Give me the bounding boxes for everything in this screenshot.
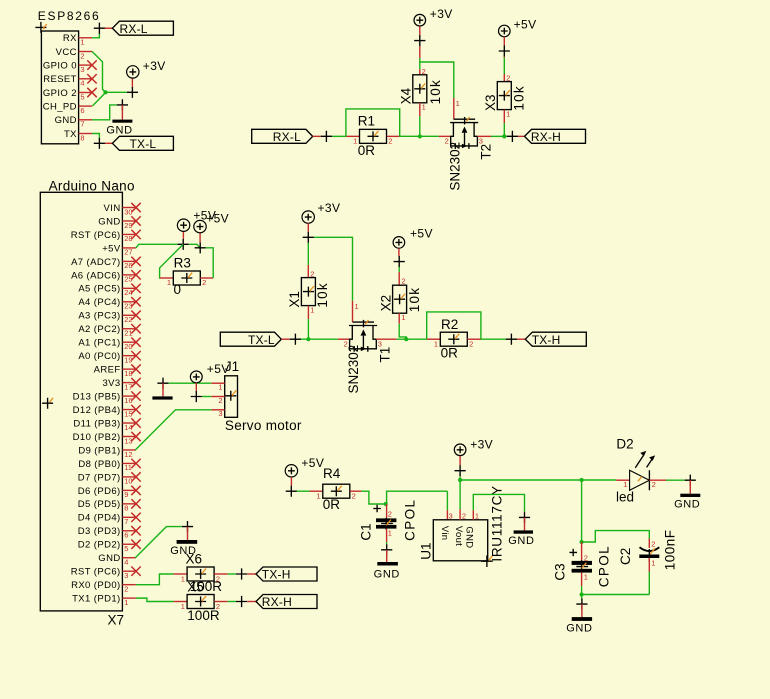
svg-text:1: 1	[623, 480, 627, 489]
svg-text:Servo motor: Servo motor	[225, 418, 302, 433]
node cross +5V X2	[394, 256, 405, 267]
svg-text:2: 2	[584, 554, 588, 563]
svg-text:D9 (PB1): D9 (PB1)	[78, 445, 120, 456]
svg-text:1: 1	[434, 339, 438, 348]
junction +3V rail	[458, 478, 462, 482]
svg-text:RX-H: RX-H	[262, 595, 292, 609]
J1 pin 2	[211, 396, 225, 398]
supply +5V (X2)	[393, 237, 405, 249]
svg-text:GND: GND	[566, 623, 592, 635]
node cross +5V b	[195, 242, 206, 253]
node cross TX-H attach	[506, 334, 517, 345]
svg-text:TX: TX	[64, 129, 77, 140]
flag TX-L (shifter input)	[220, 332, 281, 346]
svg-text:0R: 0R	[441, 346, 459, 361]
svg-text:3: 3	[218, 409, 222, 418]
svg-text:AREF: AREF	[94, 365, 121, 376]
regulator U1 body	[433, 520, 487, 561]
svg-text:6: 6	[80, 106, 84, 115]
svg-text:RX-L: RX-L	[273, 130, 301, 144]
resistor X4 10k	[413, 75, 427, 103]
ground GND (ESP)	[121, 105, 123, 120]
svg-text:R4: R4	[323, 466, 341, 481]
transistor T2 SN2302	[439, 135, 450, 137]
wire X1 to row	[307, 306, 309, 320]
svg-text:D11 (PB3): D11 (PB3)	[73, 418, 120, 429]
wire +5V b to R3 pin2	[206, 248, 213, 278]
svg-text:D6 (PD6): D6 (PD6)	[78, 486, 121, 497]
capacitor C1 CPOL plus sign	[373, 505, 381, 512]
svg-text:D8 (PB0): D8 (PB0)	[78, 459, 120, 470]
svg-text:Vout: Vout	[453, 526, 464, 546]
node cross ground U1	[519, 512, 530, 523]
svg-text:8: 8	[80, 133, 84, 142]
svg-text:RX0 (PD0): RX0 (PD0)	[71, 580, 121, 591]
svg-text:1: 1	[355, 302, 359, 311]
svg-text:X4: X4	[399, 87, 414, 104]
svg-text:VIN: VIN	[104, 203, 121, 214]
svg-text:SN2302: SN2302	[346, 345, 361, 394]
svg-text:GND: GND	[98, 216, 120, 227]
svg-text:9: 9	[124, 490, 128, 499]
svg-text:GPIO 2: GPIO 2	[43, 88, 77, 99]
wire +3V to X1	[307, 243, 309, 265]
wire +3V to X4	[419, 46, 421, 58]
svg-text:0R: 0R	[323, 497, 341, 512]
svg-text:2: 2	[388, 509, 392, 518]
wire Arduino GND pin to ground	[135, 527, 182, 558]
wire +3V branch to T1 gate	[314, 237, 353, 301]
wire Arduino D9 to J1 pin3 (servo signal)	[135, 410, 211, 450]
svg-text:+3V: +3V	[430, 7, 453, 21]
svg-text:IRU1117CY: IRU1117CY	[489, 485, 504, 561]
resistor X3 10k	[497, 82, 511, 110]
svg-text:Arduino Nano: Arduino Nano	[49, 178, 135, 193]
svg-text:TX-L: TX-L	[130, 137, 157, 151]
svg-text:2: 2	[352, 491, 356, 500]
wire RX-L to R1	[332, 135, 346, 137]
svg-text:+5V: +5V	[102, 243, 121, 254]
svg-text:X1: X1	[287, 291, 302, 308]
flag TX-L (ESP)	[112, 136, 173, 150]
svg-text:TX-L: TX-L	[248, 333, 275, 347]
svg-text:2: 2	[652, 480, 656, 489]
svg-text:D2: D2	[616, 436, 633, 451]
junction X3 bottom	[502, 134, 506, 138]
svg-text:T1: T1	[378, 347, 393, 363]
resistor X6 100R	[174, 573, 188, 575]
junction C2 return	[580, 592, 584, 596]
J1 pin 1	[211, 382, 225, 384]
svg-text:U1: U1	[419, 543, 434, 560]
svg-text:100nF: 100nF	[662, 530, 677, 571]
supply +5V (X3)	[499, 25, 511, 37]
node cross ground D2	[685, 475, 696, 486]
wire Arduino TX1 to X5	[136, 598, 174, 601]
svg-text:R3: R3	[174, 256, 191, 271]
node cross +5V J1	[191, 391, 202, 402]
svg-text:2: 2	[310, 270, 314, 279]
svg-text:1: 1	[124, 598, 128, 607]
node cross ground C3	[576, 599, 587, 610]
wire +3V to U1 Vout	[459, 476, 461, 509]
svg-text:2: 2	[462, 512, 466, 521]
wire X4 to row	[419, 103, 421, 117]
ground (Arduino GND)	[187, 527, 189, 540]
wire T2 to X3/RX-H	[491, 135, 507, 137]
node cross GND (ESP)	[117, 99, 128, 110]
svg-text:D10 (PB2): D10 (PB2)	[73, 432, 121, 443]
svg-text:27: 27	[124, 248, 132, 257]
node cross RX-H attach	[507, 131, 518, 142]
svg-text:GND: GND	[374, 568, 400, 580]
svg-text:+3V: +3V	[143, 59, 166, 73]
wire U1 GND pin to ground	[472, 510, 474, 520]
junction VCC/CH_PD/+3V	[103, 90, 107, 94]
svg-text:2: 2	[80, 51, 84, 60]
wire X2 to row	[398, 313, 400, 324]
svg-text:8: 8	[124, 504, 128, 513]
svg-text:+5V: +5V	[514, 18, 537, 32]
supply +3V (X1)	[302, 211, 314, 223]
svg-text:X3: X3	[483, 94, 498, 111]
wire Arduino RX0 to X6	[136, 574, 174, 585]
wire ESP TX to TX-L	[92, 134, 99, 138]
resistor X1 10k	[301, 278, 315, 306]
wire link to C2	[582, 531, 650, 542]
svg-text:D2 (PD2): D2 (PD2)	[78, 540, 121, 551]
wire ESP RX to RX-L	[92, 33, 99, 38]
ground (U1)	[524, 517, 526, 530]
svg-text:CH_PD: CH_PD	[43, 102, 77, 113]
svg-text:RST (PC6): RST (PC6)	[71, 567, 121, 578]
svg-text:X6: X6	[186, 551, 203, 566]
svg-text:1: 1	[310, 305, 314, 314]
svg-text:RX: RX	[63, 33, 77, 44]
svg-text:+5V: +5V	[207, 362, 230, 376]
wire C2 bottom return	[582, 594, 650, 596]
node cross +5V a	[178, 239, 189, 250]
node cross +3V (X4)	[414, 35, 425, 46]
wire R1 to X4/T2	[400, 135, 439, 137]
wire bypass around R2	[427, 312, 481, 339]
resistor R2 0R	[427, 338, 441, 340]
svg-text:TX-H: TX-H	[532, 333, 561, 347]
svg-text:1: 1	[475, 512, 479, 521]
junction C3 branch	[580, 478, 584, 482]
svg-text:5: 5	[80, 92, 84, 101]
flag TX-H (to Arduino)	[256, 567, 317, 581]
wire link to second supply	[189, 244, 200, 248]
svg-text:SN2302: SN2302	[447, 142, 462, 191]
svg-text:CPOL: CPOL	[402, 499, 417, 541]
U1 origin cross	[481, 555, 493, 567]
ground (D2)	[689, 480, 691, 494]
supply +5V a	[182, 231, 184, 238]
svg-text:1: 1	[388, 529, 392, 538]
wire Arduino +5V to supply node	[136, 244, 178, 248]
svg-text:2: 2	[506, 74, 510, 83]
svg-text:7: 7	[124, 517, 128, 526]
svg-text:+3V: +3V	[318, 201, 341, 215]
svg-text:1: 1	[353, 136, 357, 145]
svg-text:A6 (ADC6): A6 (ADC6)	[71, 270, 121, 281]
svg-text:C1: C1	[358, 523, 373, 540]
junction X1 bottom	[306, 337, 310, 341]
capacitor C2 100nF	[648, 539, 650, 549]
resistor X2 10k	[393, 285, 407, 313]
ESP8266 origin cross	[35, 22, 46, 33]
svg-text:1: 1	[456, 99, 460, 108]
svg-text:4: 4	[80, 79, 84, 88]
IC Arduino Nano body	[40, 192, 122, 611]
wire rail down to C3/C2	[581, 480, 583, 542]
svg-text:4: 4	[124, 558, 128, 567]
svg-text:GND: GND	[55, 115, 77, 126]
resistor R4 0R	[309, 490, 322, 492]
wire C1 to ground	[386, 529, 388, 542]
node cross ground (Arduino GND)	[182, 521, 193, 532]
svg-text:0: 0	[174, 282, 182, 297]
wire X5 to RX-H	[228, 601, 237, 603]
wire R2 to TX-H	[481, 338, 506, 340]
wire R4 to C1/U1 rail	[361, 491, 385, 504]
capacitor C3 CPOL plus sign	[570, 549, 578, 556]
ground (C3)	[581, 604, 583, 617]
svg-text:ESP8266: ESP8266	[38, 9, 101, 23]
IC ESP8266 body	[41, 31, 78, 144]
svg-text:1: 1	[401, 313, 405, 322]
svg-text:100R: 100R	[187, 608, 220, 623]
J1 pin 3	[211, 409, 225, 411]
svg-text:C3: C3	[553, 563, 568, 580]
wire X6 to TX-H	[228, 573, 237, 575]
LED D2 arrows	[635, 456, 643, 468]
svg-text:10k: 10k	[407, 287, 422, 312]
svg-text:D3 (PD3): D3 (PD3)	[78, 526, 121, 537]
node cross RX-H bottom	[236, 596, 247, 607]
svg-text:1: 1	[80, 38, 84, 47]
supply +5V b	[199, 233, 201, 242]
svg-text:1: 1	[181, 575, 185, 584]
supply +3V (U1)	[454, 444, 466, 456]
svg-text:A4 (PC4): A4 (PC4)	[78, 297, 120, 308]
svg-text:10k: 10k	[511, 85, 526, 110]
svg-text:GND: GND	[508, 535, 534, 547]
svg-text:10k: 10k	[315, 282, 330, 307]
svg-text:1: 1	[506, 109, 510, 118]
ground (C1)	[386, 550, 388, 562]
svg-text:2: 2	[401, 277, 405, 286]
node cross RX-L attach	[94, 23, 105, 34]
svg-text:+5V: +5V	[206, 212, 229, 226]
svg-text:TX-H: TX-H	[262, 568, 291, 582]
wire +5V a to R3 pin1	[160, 244, 184, 278]
svg-text:2: 2	[218, 396, 222, 405]
flag RX-H (to Arduino)	[256, 595, 317, 609]
wire +3V branch to T2 gate	[420, 62, 454, 98]
svg-text:6: 6	[124, 531, 128, 540]
svg-text:A2 (PC2): A2 (PC2)	[78, 324, 120, 335]
svg-text:2: 2	[422, 67, 426, 76]
wire C2 to return	[648, 558, 650, 572]
svg-text:1: 1	[422, 103, 426, 112]
svg-text:+5V: +5V	[410, 226, 433, 240]
node cross TX-L shifter	[281, 338, 289, 340]
svg-text:1: 1	[316, 491, 320, 500]
node cross +5V (X3)	[499, 45, 510, 56]
svg-text:RX-H: RX-H	[531, 130, 561, 144]
junction C1 top	[384, 502, 388, 506]
svg-text:R1: R1	[358, 114, 375, 129]
connector J1 body	[225, 376, 238, 418]
svg-text:3: 3	[124, 571, 128, 580]
flag RX-L (shifter input)	[252, 129, 313, 143]
supply +3V (ESP)	[131, 78, 133, 87]
capacitor C3 CPOL	[581, 542, 583, 561]
svg-text:1: 1	[181, 602, 185, 611]
node cross +3V (ESP)	[127, 87, 138, 98]
node cross TX-L attach	[94, 138, 105, 149]
wire T1 to X2/R2	[396, 338, 426, 340]
svg-text:2: 2	[124, 584, 128, 593]
svg-text:1: 1	[167, 278, 171, 287]
svg-text:2: 2	[469, 339, 473, 348]
svg-text:D5 (PD5): D5 (PD5)	[78, 499, 121, 510]
svg-text:C2: C2	[618, 548, 633, 565]
wire ESP GND to ground	[92, 105, 117, 120]
wire +5V to R4	[297, 490, 310, 492]
wire rail down to U1 Vin	[446, 491, 448, 510]
node cross +3V X1	[303, 232, 314, 243]
svg-text:3: 3	[80, 65, 84, 74]
svg-text:RST (PC6): RST (PC6)	[71, 230, 121, 241]
svg-text:GND: GND	[106, 125, 132, 137]
wire LED to ground	[649, 479, 666, 481]
ground at J1 pin1	[157, 378, 168, 389]
supply +5V (J1)	[190, 371, 202, 383]
svg-text:GND: GND	[464, 526, 475, 548]
node cross TX-H bottom	[236, 568, 247, 579]
supply +3V (X4)	[414, 14, 426, 26]
svg-text:X2: X2	[378, 295, 393, 312]
svg-text:T2: T2	[479, 144, 494, 160]
svg-text:3: 3	[449, 512, 453, 521]
node cross +3V U1	[455, 465, 466, 476]
svg-text:X7: X7	[108, 612, 125, 627]
svg-text:3V3: 3V3	[102, 378, 120, 389]
svg-text:A1 (PC1): A1 (PC1)	[78, 338, 120, 349]
wire +5V to X3	[503, 57, 505, 58]
resistor R1 0R	[346, 135, 360, 137]
wire C3 to ground	[581, 573, 583, 587]
svg-text:led: led	[616, 489, 634, 504]
svg-text:R2: R2	[441, 317, 458, 332]
wire ESP VCC / CH_PD to +3V node	[92, 52, 105, 93]
node cross RX-L (shifter)	[313, 135, 321, 137]
svg-text:GND: GND	[98, 553, 120, 564]
svg-text:X5: X5	[187, 580, 204, 595]
svg-text:D7 (PD7): D7 (PD7)	[78, 472, 121, 483]
wire +5V to J1 pin2	[202, 396, 211, 398]
junction X2 bottom	[404, 337, 408, 341]
flag RX-H (shifter output)	[525, 129, 586, 143]
svg-text:7: 7	[80, 120, 84, 129]
resistor X5 100R	[174, 601, 188, 603]
flag TX-H (shifter output)	[525, 332, 586, 346]
svg-text:Vin: Vin	[439, 526, 450, 540]
wire +3V rail to LED	[460, 479, 616, 481]
capacitor C1 CPOL	[386, 504, 388, 518]
flag RX-L (ESP)	[112, 21, 173, 35]
svg-text:D12 (PB4): D12 (PB4)	[73, 405, 121, 416]
svg-text:A0 (PC0): A0 (PC0)	[78, 351, 120, 362]
svg-text:GPIO 0: GPIO 0	[43, 61, 77, 72]
svg-text:RESET: RESET	[43, 74, 77, 85]
svg-text:+3V: +3V	[470, 437, 493, 451]
svg-text:A5 (PC5): A5 (PC5)	[78, 284, 120, 295]
svg-text:RX-L: RX-L	[120, 22, 148, 36]
junction X4 bottom	[418, 134, 422, 138]
Arduino origin cross	[42, 398, 53, 409]
supply +5V (R4)	[285, 465, 297, 477]
svg-text:2: 2	[202, 278, 206, 287]
resistor R3 0	[160, 277, 173, 279]
svg-text:D4 (PD4): D4 (PD4)	[78, 513, 121, 524]
svg-text:2: 2	[388, 136, 392, 145]
svg-text:GND: GND	[674, 498, 700, 510]
wire X3 to row	[503, 110, 505, 124]
svg-text:1: 1	[218, 383, 222, 392]
svg-text:0R: 0R	[358, 143, 376, 158]
svg-text:A3 (PC3): A3 (PC3)	[78, 311, 120, 322]
svg-text:11: 11	[124, 463, 132, 472]
svg-text:CPOL: CPOL	[596, 545, 611, 587]
svg-text:D13 (PB5): D13 (PB5)	[73, 391, 121, 402]
node cross ground C1	[381, 544, 392, 555]
svg-text:+5V: +5V	[301, 456, 324, 470]
svg-text:1: 1	[584, 572, 588, 581]
svg-text:2: 2	[651, 540, 655, 549]
LED D2	[616, 479, 630, 481]
svg-text:1: 1	[651, 558, 655, 567]
wire +5V to X2	[398, 267, 400, 272]
svg-text:A7 (ADC7): A7 (ADC7)	[71, 257, 121, 268]
svg-text:TX1 (PD1): TX1 (PD1)	[72, 594, 120, 605]
svg-text:VCC: VCC	[56, 47, 77, 58]
wire ground to J1 pin1	[169, 382, 212, 384]
transistor T1 SN2302	[338, 338, 349, 340]
svg-text:10k: 10k	[428, 79, 443, 104]
wire bypass around R1	[346, 109, 400, 136]
svg-text:5: 5	[124, 544, 128, 553]
node cross +5V R4	[286, 486, 297, 497]
svg-text:12: 12	[124, 450, 132, 459]
wire TX-L to T1	[301, 338, 338, 340]
